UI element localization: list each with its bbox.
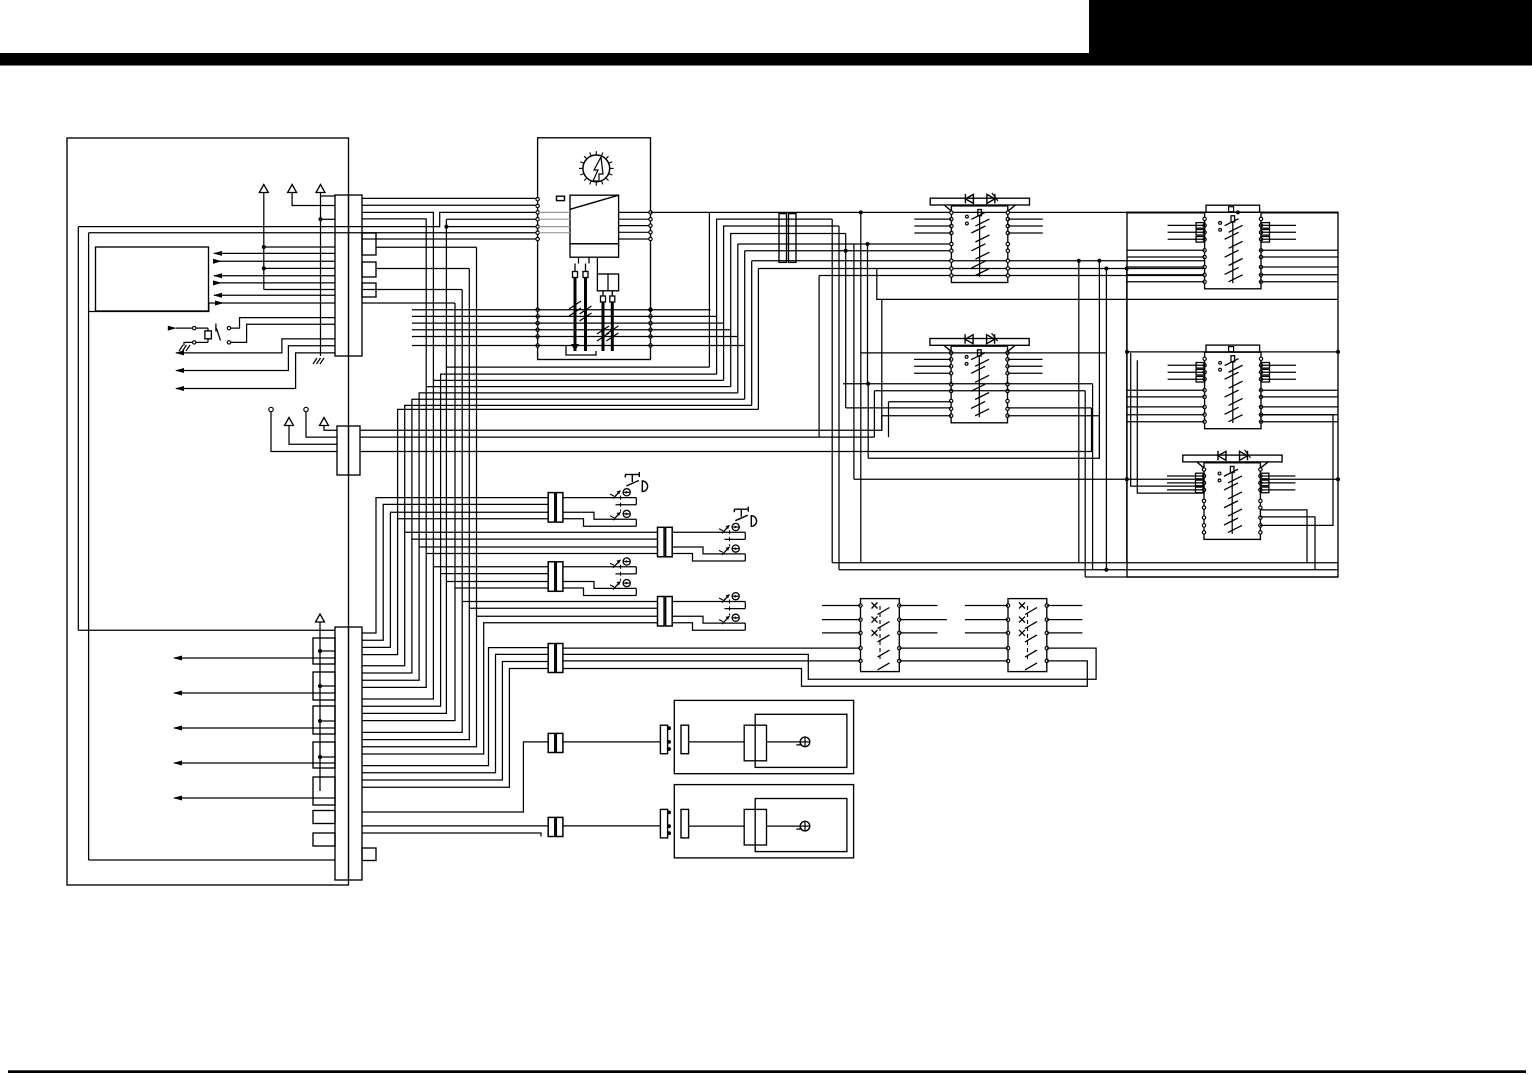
- switch left stub wires: [1168, 364, 1205, 366]
- cluster bottom wire 4: [426, 387, 731, 554]
- up-arrow G: [320, 418, 329, 426]
- switch right stub wires: [1008, 218, 1043, 220]
- switch right stub wires: [1261, 224, 1296, 226]
- motor wire inner: [689, 825, 745, 827]
- lock motor symbol: [623, 489, 630, 496]
- motor wire to motor: [767, 741, 801, 743]
- C1 feed vertical to cascade 12: [461, 290, 463, 602]
- wire F: [306, 412, 337, 437]
- power source up-arrow C: [316, 185, 325, 193]
- splice vertical 867: [867, 244, 869, 384]
- switch common rail: [978, 210, 982, 216]
- cluster arm 8: [757, 269, 759, 410]
- lock wire row2: [563, 512, 636, 519]
- C2 wire 2: [360, 436, 874, 438]
- lock switch mark: [610, 491, 621, 499]
- lock switch mark: [610, 560, 621, 568]
- switch top bar: [1183, 455, 1282, 462]
- connector C1: [335, 195, 362, 356]
- C1 feed vertical to cascade 13: [468, 269, 470, 609]
- cluster bottom wire 8: [398, 409, 759, 518]
- wire ECU internal row 311: [89, 303, 209, 312]
- C1 tab row 247 wire: [376, 246, 477, 248]
- coil terminal 1: [573, 272, 578, 278]
- wire C1 row212 turning down: [362, 212, 433, 380]
- wire branch to pin4: [446, 218, 537, 220]
- signal lines between inner box and connector C1: [214, 252, 335, 254]
- lock motor symbol: [732, 593, 739, 600]
- connector C3: [335, 627, 362, 880]
- secondary terminal 2: [610, 296, 615, 302]
- cascade wire 20: [362, 669, 548, 788]
- switch side bumps: [1196, 363, 1205, 369]
- switch right stub wires: [1260, 475, 1295, 477]
- ECU bottom wire to C3: [78, 629, 335, 631]
- secondary coil box: [597, 274, 618, 291]
- wire long feed jog to pin3: [78, 212, 537, 226]
- switch common rail: [1230, 466, 1234, 472]
- R2 to R3 wrap wire: [1260, 415, 1333, 526]
- cascade wire 8: [362, 554, 658, 688]
- relay coil box: [205, 331, 212, 339]
- lock wire row1 return: [616, 573, 637, 575]
- motor outer box: [674, 700, 853, 773]
- ECU lower output wires with arrows: [174, 657, 335, 659]
- through wire row 309: [412, 309, 711, 311]
- switch body: [951, 346, 1007, 423]
- node row1 splice: [859, 210, 863, 214]
- wire G: [324, 426, 337, 431]
- SW-B row9 right wire: [1008, 415, 1100, 417]
- vertical 1085 to bus: [1084, 391, 1086, 577]
- node on wire A1: [262, 245, 266, 249]
- SW-B row8 left wire: [846, 407, 951, 409]
- lock wire row1 return: [616, 504, 637, 506]
- vertical 874 down: [873, 391, 875, 437]
- door lock switch block: [1008, 599, 1047, 672]
- cluster arm 5: [737, 244, 739, 393]
- distributor bottom bracket: [566, 345, 596, 355]
- window motor symbol: [796, 737, 810, 747]
- ECU inner control-unit box: [96, 247, 209, 311]
- diode 1 on bar: [965, 194, 973, 203]
- block contact diagonals: [1025, 608, 1037, 615]
- wire from secondary box top: [596, 257, 598, 274]
- splice vertical 832: [831, 219, 833, 563]
- ECU outer box: [67, 138, 349, 885]
- relay ground symbol: [179, 345, 190, 351]
- wire pin row1 long to right: [651, 211, 1339, 213]
- node pin5 feed: [444, 225, 448, 229]
- stepped sensor wire 2: [176, 346, 335, 371]
- lock switch stubs left 2: [965, 605, 1008, 607]
- through wire row 323: [412, 322, 723, 324]
- connector C1 right tabs: [362, 233, 376, 255]
- stepped sensor wire 3: [176, 353, 335, 389]
- lock wire row2 return: [672, 554, 745, 562]
- lock wire row2 return: [563, 519, 636, 527]
- R3 row1 right wire: [1260, 478, 1338, 480]
- door lock switch connector: [548, 644, 555, 673]
- wire A to C1 row 268: [264, 267, 335, 269]
- cascade wire 17: [362, 648, 548, 766]
- cluster bottom wire 3: [433, 380, 723, 566]
- switch contacts: [1203, 357, 1206, 360]
- secondary lead wires: [602, 291, 604, 296]
- node row1 right: [1236, 210, 1240, 214]
- lock motor symbol: [623, 580, 630, 587]
- C1 row 303 wire: [362, 302, 455, 304]
- igniter lower band: [570, 244, 619, 257]
- lock motor symbol: [732, 523, 739, 530]
- lock row4 return loop: [563, 648, 1096, 679]
- long row 275 wire: [819, 275, 1205, 277]
- igniter right pins: [649, 211, 652, 214]
- lock switch mark: [610, 512, 621, 520]
- switch right stub wires: [1008, 358, 1043, 360]
- C1 row 289 wire: [362, 289, 462, 291]
- wire from arrow C: [320, 193, 322, 357]
- motor feed connector pins: [667, 726, 671, 730]
- vertical 881 from under-switch wire: [881, 299, 883, 430]
- splice vertical 1099: [1098, 261, 1100, 459]
- node row268: [1125, 267, 1129, 271]
- splice vertical 839: [838, 226, 840, 570]
- motor inner connector: [681, 809, 689, 838]
- wire from arrow A: [263, 193, 265, 290]
- switch left stub wires: [1168, 224, 1205, 226]
- switch side bumps: [1196, 473, 1205, 479]
- motor2 feed wire: [563, 825, 661, 827]
- node igniter edge: [649, 308, 653, 312]
- window motor symbol: [796, 821, 810, 831]
- switch common rail: [978, 350, 982, 356]
- page header black box top-right: [1089, 0, 1532, 66]
- long row 250 wire: [745, 250, 952, 252]
- lock mechanical dashed link: [729, 530, 731, 546]
- SW-B row9 left wire: [882, 415, 951, 417]
- SW-B row1 wire: [861, 352, 1107, 354]
- diode 2 on bar: [1240, 451, 1248, 460]
- igniter box: [570, 195, 619, 244]
- switch contacts: [949, 351, 952, 354]
- lock switch mark: [719, 616, 730, 624]
- relay coil wires: [196, 327, 208, 329]
- R1 row1 wire: [1127, 212, 1205, 214]
- switch top cap: [1206, 205, 1260, 212]
- switch contacts: [1203, 217, 1206, 220]
- door lock connector: [658, 527, 665, 557]
- lock motor symbol: [623, 510, 630, 517]
- lock switch mark: [719, 547, 730, 555]
- block contact diagonals: [878, 608, 890, 615]
- splice vertical 853: [853, 244, 855, 479]
- door lock connector: [548, 562, 555, 592]
- lock mechanical dashed link: [620, 565, 622, 581]
- coil terminal 2: [583, 272, 588, 278]
- power source up-arrow B: [288, 185, 297, 193]
- switch right stub wires: [1261, 364, 1296, 366]
- lock row5 link wire: [899, 660, 1008, 662]
- node R3 row1 right: [1336, 477, 1340, 481]
- lock motor symbol: [732, 614, 739, 621]
- cascade wire 10: [362, 574, 548, 707]
- node row260c: [1097, 259, 1101, 263]
- vertical at 819: [818, 276, 820, 438]
- node row260: [1077, 259, 1081, 263]
- junction node: [318, 719, 322, 723]
- C2 wire 3: [360, 408, 1092, 452]
- up-arrow near connector C3: [316, 614, 325, 622]
- lock row5 return loop: [563, 661, 1087, 686]
- motor outer box: [674, 785, 853, 858]
- relay contact: [215, 324, 217, 332]
- diode 1 on bar: [965, 335, 973, 344]
- SW-B row7 left wire: [889, 401, 952, 403]
- cascade wire 12: [362, 588, 548, 721]
- wire to pin5: [446, 226, 537, 228]
- lock row4 link wire: [899, 647, 1008, 649]
- motor1 feed wire: [563, 741, 661, 743]
- cluster bottom wire 6: [412, 399, 745, 539]
- cascade wire 15: [362, 616, 658, 747]
- motor inner box: [755, 799, 847, 852]
- diode 2 on bar: [987, 194, 995, 203]
- connector C3 left tabs: [313, 638, 335, 664]
- motor gear rect: [744, 725, 766, 761]
- switch top cap: [1206, 345, 1260, 352]
- splice vertical 1126: [1126, 269, 1128, 563]
- splice vertical 860: [860, 212, 862, 562]
- switch top bar: [930, 198, 1029, 205]
- junction node: [318, 649, 322, 653]
- R3 row1 wire: [854, 478, 1204, 480]
- motor feed connector: [660, 725, 667, 754]
- spark plug wire 3: [602, 302, 605, 351]
- relay output wire 1: [231, 318, 335, 329]
- cascade wire motor2b: [362, 833, 541, 837]
- motor inner box: [755, 714, 847, 767]
- R1 long feed wires: [1127, 249, 1205, 251]
- cascade wire 16: [362, 623, 658, 754]
- cascade wire 9: [362, 567, 548, 699]
- cluster bottom wire 5: [419, 393, 738, 547]
- wire from arrow B: [292, 193, 335, 206]
- C1 feed vertical to cascade 11: [454, 303, 456, 588]
- wire to pin7: [362, 238, 538, 240]
- branch wire to C3: [320, 720, 335, 722]
- switch common rail: [1231, 216, 1235, 222]
- power source up-arrow A: [259, 185, 268, 193]
- igniter assembly lower left pins: [536, 308, 539, 311]
- node R2 left: [1125, 350, 1129, 354]
- igniter assembly lower right pins: [649, 308, 652, 311]
- cascade wire motor1: [362, 742, 548, 812]
- node row250: [844, 249, 848, 253]
- block X marks: [872, 603, 878, 609]
- connector C3 right bottom tab: [362, 848, 376, 861]
- block dashed link: [879, 606, 881, 662]
- switch contacts: [1202, 468, 1205, 471]
- lock switch mark: [610, 581, 621, 589]
- ECU left inner vertical wire 1: [77, 227, 79, 631]
- relay contact circles: [227, 326, 230, 329]
- wire long feed to pin6: [89, 232, 538, 234]
- R2 bar wire: [1127, 351, 1338, 353]
- switch body: [1204, 463, 1260, 540]
- lock wire row1 return: [725, 608, 746, 610]
- motor wire inner: [689, 741, 745, 743]
- fuse on pin1 wire: [557, 196, 565, 200]
- cascade wire 7: [362, 547, 658, 680]
- wire C to C1 row 219: [321, 218, 336, 220]
- cascade wire 19: [362, 662, 548, 781]
- cascade wire 6: [362, 539, 658, 673]
- motor feed connector pins: [667, 811, 671, 815]
- node on wire C: [319, 217, 323, 221]
- through wire row 336: [412, 336, 737, 338]
- cascade wire motor2: [362, 825, 548, 827]
- key cylinder: [625, 472, 647, 492]
- cluster bottom wire 2: [441, 374, 717, 573]
- node row268c: [1104, 267, 1108, 271]
- switch common rail: [1231, 356, 1235, 362]
- bus wire 2: [839, 569, 1338, 571]
- wire row458: [868, 416, 1099, 459]
- cascade wire 18: [362, 654, 548, 772]
- vertical branch at 446: [445, 219, 447, 367]
- lock row5 wire: [563, 660, 861, 662]
- lock switch mark: [719, 595, 730, 603]
- cascade wire 4: [362, 519, 548, 655]
- vertical 1092 to bus: [1092, 384, 1094, 570]
- wire A to C1 row 247: [264, 246, 335, 248]
- cluster vertical 1: [708, 212, 710, 367]
- diode 1 on bar: [1218, 451, 1226, 460]
- splice vertical 845: [845, 234, 847, 408]
- lock switch stubs right 1: [899, 605, 937, 607]
- lock mechanical dashed link: [620, 496, 622, 512]
- ECU left inner vertical wire 2: [88, 233, 90, 860]
- block X marks: [1019, 603, 1025, 609]
- stub circle D: [269, 407, 273, 411]
- cascade wire 1: [362, 498, 548, 633]
- motor2 inline connector: [548, 817, 555, 836]
- connector pair bars: [779, 214, 787, 263]
- R3 right lower wires: [1260, 510, 1307, 563]
- switch body: [1205, 352, 1261, 429]
- switch body: [951, 206, 1007, 283]
- switch body: [1205, 212, 1261, 289]
- switch contact tip circles: [965, 356, 968, 359]
- switch left stub wires: [914, 218, 951, 220]
- node row244: [866, 242, 870, 246]
- spark gap hatches: [569, 301, 581, 309]
- SW-B row5 wire: [843, 383, 1093, 385]
- through wire row 329: [412, 329, 730, 331]
- wire A to C1 row 289: [264, 289, 335, 291]
- long row 268 wire: [758, 268, 1204, 270]
- branch wire to C3: [320, 685, 335, 687]
- node R2 right: [1336, 350, 1340, 354]
- relay output wire 2: [231, 324, 335, 342]
- switch left stub wires: [1167, 475, 1204, 477]
- footer rule: [8, 1070, 1526, 1073]
- wire E: [289, 426, 337, 445]
- motor gear rect: [744, 809, 766, 845]
- node 1126 on row479: [1125, 477, 1129, 481]
- arm8 under-switch wire: [877, 269, 1338, 300]
- junction node: [318, 684, 322, 688]
- cluster bottom wire 7: [405, 405, 752, 532]
- wire C1 to igniter pin2: [362, 204, 538, 206]
- wire C1 row219 turning down: [362, 219, 426, 387]
- cluster arm 3: [724, 226, 839, 380]
- cascade wire 5: [362, 532, 658, 666]
- wire C1 to igniter pin1: [362, 197, 538, 199]
- lock wire row1: [672, 531, 745, 533]
- lock motor symbol: [732, 545, 739, 552]
- switch top bar: [930, 339, 1029, 346]
- lock wire row2: [672, 616, 745, 623]
- ECU bottom wire 2 to C3: [89, 859, 335, 861]
- door lock connector: [548, 493, 555, 522]
- lock mechanical dashed link: [729, 600, 731, 616]
- spark plug wire 4: [611, 302, 614, 351]
- lock wire row2 return: [672, 623, 745, 631]
- bus wire 3: [1085, 576, 1338, 578]
- cluster arm 4: [731, 234, 846, 387]
- splice vertical 868 lower: [867, 384, 869, 459]
- coil lead left: [574, 264, 576, 272]
- lock switch stubs left 1: [822, 605, 861, 607]
- lock wire row2: [563, 582, 636, 589]
- relay input arrow: [168, 326, 177, 331]
- relay ground wire: [184, 342, 193, 345]
- branch wire to C3: [320, 756, 335, 758]
- lock switch mark: [719, 525, 730, 533]
- igniter internal right wires: [619, 211, 649, 213]
- door lock switch block: [861, 599, 900, 672]
- igniter assembly outer box: [538, 138, 651, 360]
- C1 tab row 268 wire: [376, 268, 469, 270]
- cluster arm 6: [744, 251, 746, 400]
- through wire row 316: [412, 315, 717, 317]
- junction node: [318, 755, 322, 759]
- spark plug wire 2: [584, 278, 587, 352]
- motor inner connector: [681, 725, 689, 754]
- switch contact tip circles: [1219, 222, 1222, 225]
- branch wire to C3: [320, 650, 335, 652]
- splice vertical 1078: [1078, 261, 1080, 563]
- vertical feed wire near C3: [319, 622, 321, 791]
- C1 feed vertical to cascade 14: [476, 247, 478, 616]
- bus wire 1: [832, 562, 1338, 564]
- diode 2 on bar: [987, 335, 995, 344]
- lock wire row2 return: [563, 588, 636, 596]
- cascade wire 11: [362, 582, 548, 714]
- right door box: [1127, 212, 1338, 577]
- cascade wire 2: [362, 504, 548, 640]
- lock wire row1 return: [725, 538, 746, 540]
- lock motor symbol: [623, 558, 630, 565]
- motor feed connector: [660, 809, 667, 838]
- distributor symbol circle: [579, 151, 614, 186]
- cluster arm 7: [751, 261, 753, 406]
- cluster bottom wire 1: [446, 367, 709, 581]
- switch contacts: [950, 211, 953, 214]
- block dashed link: [1027, 606, 1029, 662]
